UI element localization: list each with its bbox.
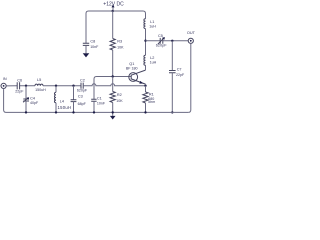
svg-text:22pF: 22pF [15, 90, 24, 94]
svg-text:L5: L5 [37, 78, 41, 82]
svg-text:C5: C5 [158, 34, 163, 38]
svg-text:C3: C3 [78, 95, 83, 99]
svg-text:150uH: 150uH [58, 105, 72, 110]
svg-text:620pF: 620pF [77, 89, 88, 93]
svg-text:R1: R1 [149, 93, 154, 97]
svg-text:IN: IN [3, 77, 7, 81]
svg-text:+12V DC: +12V DC [103, 1, 124, 7]
svg-text:10nF: 10nF [97, 102, 106, 106]
svg-text:R2: R2 [117, 93, 122, 97]
svg-text:C7: C7 [177, 67, 182, 71]
svg-text:620pF: 620pF [156, 43, 167, 47]
svg-text:R3: R3 [117, 40, 122, 44]
svg-text:BF 180: BF 180 [126, 66, 138, 70]
svg-text:C4: C4 [30, 97, 35, 101]
svg-text:68pF: 68pF [78, 102, 87, 106]
svg-text:L1: L1 [150, 20, 154, 24]
svg-text:10nF: 10nF [90, 45, 99, 49]
svg-text:1uH: 1uH [149, 25, 156, 29]
svg-text:L4: L4 [60, 99, 64, 103]
svg-text:10K: 10K [116, 99, 123, 103]
svg-text:C6: C6 [17, 79, 22, 83]
svg-text:10K: 10K [117, 45, 124, 49]
svg-text:OUT: OUT [187, 31, 196, 35]
svg-text:150uH: 150uH [35, 88, 46, 92]
svg-text:C2: C2 [80, 79, 85, 83]
svg-text:40pF: 40pF [30, 101, 39, 105]
svg-text:22pF: 22pF [176, 73, 185, 77]
svg-text:ohm: ohm [148, 100, 155, 104]
svg-text:1uH: 1uH [150, 60, 157, 64]
svg-text:C8: C8 [90, 39, 95, 43]
svg-text:C1: C1 [97, 96, 102, 100]
